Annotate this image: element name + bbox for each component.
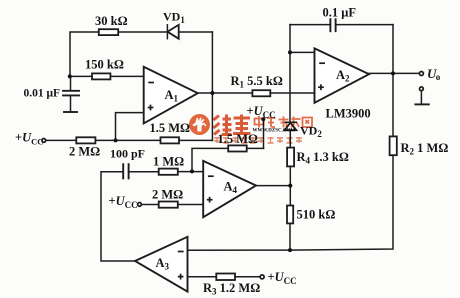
wire 100pF left loop (101, 172, 135, 261)
op-amp A3 triangle (135, 237, 188, 292)
wire 510k down to A3 minus line (289, 223, 291, 250)
terminal +Ucc left circle (42, 139, 46, 143)
watermark dianzi shichang wang chars (255, 116, 313, 128)
resistor 150k box (92, 73, 110, 79)
wire VD2 to R4 (289, 130, 291, 147)
node A4 minus junction (190, 169, 194, 173)
wire vertical through to VD2 (289, 52, 291, 122)
svg-text:30 kΩ: 30 kΩ (95, 14, 128, 28)
wire 1M to A4 minus (178, 171, 203, 173)
resistor 1.5M second box (228, 145, 247, 151)
wire Ucc left line (46, 139, 77, 141)
node A2 minus junction (288, 50, 292, 54)
wire A2 minus input (290, 51, 315, 53)
terminal Uo circle (419, 72, 423, 76)
wire R2 vertical top (392, 73, 394, 136)
node A4 output junction (288, 184, 292, 188)
wire top between 30k and VD1 (118, 31, 167, 33)
resistor 510k box vertical (287, 206, 293, 224)
svg-text:LM3900: LM3900 (326, 107, 371, 121)
node 510k A3 line junction (288, 248, 292, 252)
node A1 minus junction (68, 74, 72, 78)
resistor R3 box (216, 274, 235, 281)
wire A4 output (256, 185, 290, 187)
svg-text:R4 1.3 kΩ: R4 1.3 kΩ (297, 150, 349, 166)
wire second Ucc vertical (263, 121, 265, 148)
svg-text:1.5 MΩ: 1.5 MΩ (150, 121, 191, 135)
svg-text:0.1 μF: 0.1 μF (323, 6, 357, 20)
diode VD2 (285, 122, 297, 130)
resistor R1 box (252, 90, 270, 96)
wire R4 to node (289, 166, 291, 205)
svg-text:R1 5.5 kΩ: R1 5.5 kΩ (231, 74, 283, 90)
ground terminal below Uo (415, 87, 428, 105)
wire right vertical from top wire to A1 output node (211, 32, 213, 93)
pin A2 plus sign (318, 84, 324, 90)
pin A3 plus sign (178, 274, 184, 280)
watermark bottom small chars (214, 137, 302, 143)
wire 1.5M second line (247, 147, 264, 149)
svg-text:R3 1.2 MΩ: R3 1.2 MΩ (203, 281, 260, 297)
watermark logo circle (189, 114, 210, 135)
node A2 output junction (391, 71, 395, 75)
svg-text:1 MΩ: 1 MΩ (153, 155, 184, 169)
resistor 2M left box (76, 137, 95, 143)
wire cap right vertical to output node (392, 25, 394, 74)
wire vertical A1out down to Ucc line (211, 93, 213, 140)
svg-text:100 pF: 100 pF (110, 147, 145, 161)
svg-text:0.01 μF: 0.01 μF (24, 88, 61, 100)
resistor 1.5M first box (161, 137, 180, 143)
resistor 1M box (159, 169, 178, 175)
op-amp A1 triangle (144, 67, 198, 124)
svg-text:R2 1 MΩ: R2 1 MΩ (401, 141, 449, 157)
op-amp A2 triangle (315, 48, 370, 102)
svg-text:150 kΩ: 150 kΩ (85, 58, 124, 72)
wire top feedback left vertical (70, 32, 99, 76)
wire A3 plus to R3 (188, 276, 217, 278)
terminal +Ucc mid filled dot (261, 117, 265, 121)
svg-text:2 MΩ: 2 MΩ (152, 188, 183, 202)
wire R1 to A2 plus input (270, 92, 314, 94)
watermark weiku chars (214, 115, 251, 135)
wire 150k line (70, 75, 92, 77)
wire R2 down and left to A3 minus line (188, 155, 394, 250)
svg-text:o: o (436, 72, 441, 82)
terminal +Ucc A4 circle (138, 203, 142, 207)
resistor R4 box vertical (287, 148, 294, 167)
resistor 30k box (99, 29, 118, 35)
pin A4 minus sign (208, 175, 214, 177)
capacitor 0.01uF (63, 76, 79, 112)
wire A1 plus input (116, 113, 144, 141)
wire cap left vertical down to A2 minus (289, 25, 291, 53)
diode VD1 (167, 25, 178, 39)
pin A2 minus sign (319, 62, 325, 64)
svg-text:510 kΩ: 510 kΩ (297, 208, 336, 222)
svg-text:2 MΩ: 2 MΩ (69, 145, 100, 159)
pin A1 minus sign (148, 82, 154, 84)
resistor 2M A4 box (159, 202, 178, 208)
wire top right of VD1 down to A1 output (179, 31, 213, 33)
wire A1 output (198, 92, 253, 94)
svg-text:WWW.DZSC.COM: WWW.DZSC.COM (253, 129, 296, 134)
resistor R2 box vertical (390, 136, 397, 155)
op-amp A4 triangle (203, 161, 256, 217)
node A1 plus Ucc junction (114, 138, 118, 142)
terminal +Ucc R3 circle (260, 275, 264, 279)
capacitor 0.1uF (290, 19, 393, 31)
pin A4 plus sign (207, 197, 213, 203)
capacitor 100pF (123, 164, 159, 178)
wire A4 plus line (142, 204, 159, 206)
pin A3 minus sign (178, 251, 184, 253)
pin A1 plus sign (148, 105, 154, 111)
node A1 output junction (210, 91, 214, 95)
wire A2 output to Uo (369, 72, 420, 74)
